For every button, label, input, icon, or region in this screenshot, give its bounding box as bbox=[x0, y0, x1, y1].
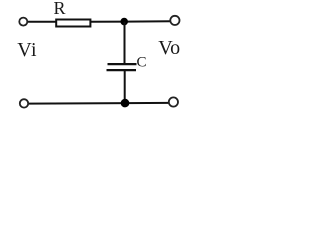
svg-text:R: R bbox=[54, 0, 66, 18]
capacitor C bottom plate bbox=[107, 69, 137, 71]
terminal: input top (open circle) bbox=[19, 18, 27, 26]
wire: capacitor C bottom plate down to node B bbox=[124, 71, 126, 104]
wire: node A down to capacitor C top plate bbox=[124, 22, 126, 64]
capacitor C top plate bbox=[108, 63, 137, 65]
wire: resistor R to output terminal (through node A) bbox=[90, 20, 171, 23]
node B junction dot (bottom) bbox=[121, 99, 130, 108]
terminal: output top (open circle) bbox=[170, 16, 179, 25]
svg-text:Vi: Vi bbox=[17, 39, 37, 61]
wire: input terminal to resistor R bbox=[27, 21, 57, 23]
resistor R1 body bbox=[56, 20, 90, 27]
svg-text:Vo: Vo bbox=[158, 37, 180, 59]
terminal: output bottom (open circle) bbox=[169, 97, 178, 106]
node A junction dot (top) bbox=[120, 18, 128, 26]
svg-text:C: C bbox=[137, 55, 147, 71]
terminal: input bottom (open circle) bbox=[20, 99, 28, 107]
wire: bottom rail between terminals bbox=[28, 102, 169, 105]
